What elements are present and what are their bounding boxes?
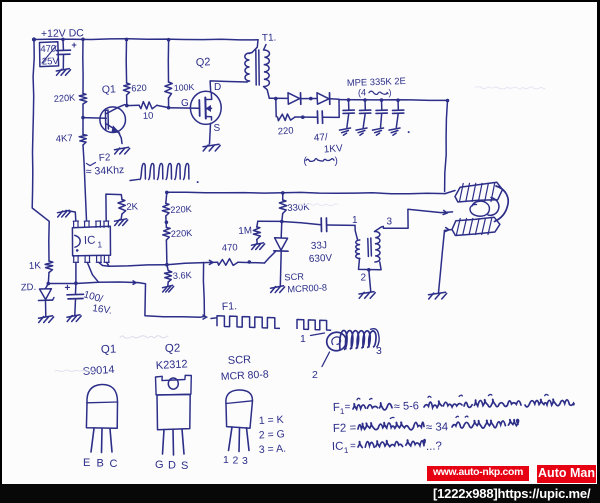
ground under 100/16V: [67, 315, 80, 317]
thyristor SCR cathode bar: [274, 250, 288, 252]
node snubber mid: [301, 115, 305, 119]
svg-text:MCR00-8: MCR00-8: [287, 282, 327, 294]
thyristor SCR triangle: [275, 238, 288, 250]
node between diodes: [309, 97, 313, 101]
capacitor 470/25V plates: [57, 49, 71, 51]
node bus left end: [165, 191, 169, 195]
capacitor 470/25V lead: [62, 39, 64, 49]
diode ZD zener: [46, 284, 49, 289]
wire low row: [48, 282, 138, 284]
ground under 2K: [115, 219, 127, 221]
svg-text:2: 2: [361, 273, 367, 284]
node rail junction C: [125, 38, 129, 42]
wire IC1 pin7 down: [87, 262, 98, 282]
wire gate drive vertical: [201, 263, 205, 318]
svg-text:T1.: T1.: [262, 33, 277, 44]
wire row to R470: [204, 261, 218, 263]
wire bus top stub: [166, 192, 167, 203]
svg-text:+: +: [65, 283, 71, 294]
wire R10 to gate node: [157, 105, 169, 107]
ground under 3.6K: [163, 285, 173, 287]
node HV bus end: [446, 99, 450, 103]
transistor Q2 drain stub: [206, 94, 212, 100]
node rail junction B: [81, 38, 85, 42]
resistor 620: [123, 83, 130, 95]
capacitor C1 MPE335K lead: [348, 100, 350, 110]
wire pin3 to toroid: [383, 209, 441, 228]
wire chain to node: [165, 240, 168, 265]
svg-text:1KV: 1KV: [323, 143, 343, 155]
svg-text:B: B: [97, 458, 104, 470]
wire to D1: [269, 97, 287, 99]
node Q1 base divider: [81, 116, 85, 120]
transistor Q2 mid stub: [206, 107, 212, 109]
wire +12V rail: [34, 39, 258, 40]
svg-text:620: 620: [131, 83, 147, 94]
svg-text:(4: (4: [358, 88, 366, 98]
svg-text:=: =: [345, 402, 351, 413]
node 220K chain mid: [165, 221, 169, 225]
wire T3 pin1 lead: [355, 225, 358, 239]
wire toroid bottom arrow: [445, 228, 449, 232]
svg-text:≈ 5-6: ≈ 5-6: [394, 400, 419, 413]
wire anode row right: [282, 222, 321, 225]
transistor Q1 circle: [100, 107, 126, 133]
wire HV bus: [339, 99, 448, 102]
IC IC1 body: [72, 226, 110, 256]
svg-text:220K: 220K: [53, 92, 76, 104]
svg-text:+: +: [72, 40, 77, 50]
svg-text:.: .: [407, 122, 410, 136]
transistor Q1 emitter arrow: [112, 126, 120, 133]
resistor 1M: [253, 227, 260, 240]
waveform F1 group2: [297, 320, 331, 331]
transistor Q2 gate bar: [198, 100, 200, 116]
transistor Q2 arrow: [206, 106, 210, 112]
capacitor 47/1KV plates: [316, 111, 318, 123]
svg-text:Q1: Q1: [102, 83, 117, 96]
capacitor C3 plates: [376, 109, 387, 111]
svg-text:1: 1: [223, 454, 229, 466]
capacitor C1 lead2: [347, 114, 349, 128]
svg-text:3.6K: 3.6K: [173, 270, 193, 281]
wire coil lead1: [311, 333, 325, 336]
wire row arrow: [209, 260, 213, 264]
wire R220K to node: [82, 104, 84, 118]
wire HV vertical join: [338, 99, 340, 117]
wire bus to toroid: [445, 191, 455, 194]
svg-text:MCR 80-8: MCR 80-8: [221, 368, 270, 382]
svg-text:33J: 33J: [311, 240, 328, 252]
wire R620 to collector node: [126, 95, 128, 106]
node zener: [47, 282, 51, 286]
transistor Q2 source stub: [206, 117, 212, 121]
svg-text:C: C: [110, 458, 118, 470]
wire faint ghost marks: [120, 336, 168, 338]
wire T1 primary bottom: [247, 81, 249, 82]
wire node to R10: [127, 104, 139, 106]
wire IC1 pin6 to row: [99, 262, 109, 266]
wire HV lower bus: [167, 192, 445, 194]
ground under C4: [389, 128, 400, 130]
wire SCR anode lead: [280, 222, 283, 238]
wire D1-D2: [301, 98, 317, 100]
IC IC1 bottom pin tab: [103, 256, 105, 262]
svg-text:G: G: [181, 98, 189, 109]
transistor Q2 channel bar: [204, 98, 207, 119]
transformer T1 core: [255, 50, 257, 85]
wire bus to R330K: [282, 193, 284, 200]
wire Q2 source: [210, 124, 211, 145]
inductor spark coil: [326, 331, 348, 352]
transformer T2 toroid bottom winding: [452, 217, 500, 235]
package SCR TO92: [226, 390, 253, 404]
node C3 tap: [380, 98, 384, 102]
IC IC1 top pin tab: [84, 221, 86, 227]
wire Q2 gate lead: [169, 107, 199, 110]
svg-text:10: 10: [143, 110, 154, 122]
wire IC1 pin1 to gnd: [66, 211, 76, 222]
svg-text:630V: 630V: [309, 253, 333, 265]
capacitor C2 lead2: [363, 114, 365, 128]
package Q1 TO92: [87, 384, 118, 403]
IC IC1 top pin tab: [103, 221, 105, 227]
node gate drive: [248, 260, 252, 264]
node C1 tap: [347, 98, 351, 102]
wire IC1 pin4 to 2K: [106, 194, 122, 221]
svg-text:470: 470: [222, 242, 238, 254]
node T3 pin2: [367, 268, 371, 272]
node rail junction D: [167, 38, 171, 42]
wire rail to R100K: [167, 40, 169, 82]
node rail junction A: [61, 38, 65, 42]
node low row arrow: [133, 281, 136, 284]
wire 3.6K gnd stub: [167, 282, 169, 286]
svg-text:≈ 34: ≈ 34: [426, 421, 449, 434]
wire C47 to HV vertical: [323, 116, 339, 118]
svg-text:...?: ...?: [426, 440, 442, 453]
svg-text:F2: F2: [98, 152, 111, 164]
svg-text:IC: IC: [332, 441, 344, 453]
ground under 1M: [252, 243, 264, 245]
wire 1M stub: [257, 221, 258, 227]
wire toroid bottom lead: [445, 230, 453, 231]
IC IC1 top pin tab: [95, 221, 97, 227]
node filter join: [74, 281, 78, 285]
wire R330K to anode node: [281, 214, 284, 222]
wire toroid mid lead: [441, 211, 453, 214]
svg-text:2: 2: [312, 369, 318, 381]
capacitor 470/25V lead2: [62, 55, 64, 69]
wire IC1 pin8 down: [75, 262, 77, 283]
package Q2 body: [157, 395, 190, 430]
wire feedback row left: [109, 265, 167, 267]
transistor Q1 emitter: [107, 124, 122, 144]
wire rail to R 220K: [82, 39, 84, 93]
capacitor 33J plates: [320, 218, 322, 232]
resistor 220 snubber: [278, 114, 296, 121]
package Q1 legs: [91, 429, 94, 453]
ground under C2: [356, 128, 367, 130]
svg-text:1: 1: [97, 239, 102, 249]
resistor 220K chain1: [162, 204, 169, 217]
wire feedback row: [167, 263, 204, 265]
svg-text:2K: 2K: [126, 201, 139, 213]
capacitor C2 MPE335K lead: [364, 100, 366, 110]
waveform F2 sawtooth: [140, 164, 189, 180]
svg-text:2: 2: [233, 455, 239, 467]
ground under Q1: [115, 147, 129, 149]
wire HV down right: [445, 101, 448, 192]
wire IC1 pin5 to row: [107, 262, 109, 266]
resistor 3.6K: [165, 271, 172, 283]
wire SCR cathode: [279, 252, 282, 287]
resistor 330K: [279, 200, 286, 214]
svg-text:3: 3: [376, 345, 382, 357]
IC IC1 bottom pin tab: [84, 256, 86, 262]
svg-text:25V: 25V: [42, 56, 60, 68]
svg-text:330K: 330K: [287, 202, 310, 214]
transformer T2 toroid top winding: [455, 182, 503, 202]
transistor Q1 collector: [107, 105, 125, 114]
node rail-left junction: [32, 37, 36, 41]
svg-text:≈ 34Khz: ≈ 34Khz: [86, 164, 125, 178]
svg-text:1 = K: 1 = K: [259, 414, 284, 427]
ground under toroid: [429, 292, 446, 294]
svg-text:1: 1: [352, 215, 358, 226]
wire T1 secondary down: [264, 87, 270, 99]
ground IC1 pin1: [58, 210, 70, 212]
svg-text:D: D: [214, 82, 221, 93]
wire rail to R620: [125, 39, 127, 83]
svg-text:Q1: Q1: [101, 343, 117, 356]
capacitor C3 lead2: [381, 114, 382, 128]
transformer T3 core: [367, 239, 370, 257]
node C2 tap: [363, 98, 367, 102]
wire R470 to gate: [238, 261, 265, 264]
svg-text:D: D: [168, 460, 176, 472]
svg-text:1M: 1M: [238, 225, 252, 237]
node bus 330K tap: [281, 191, 285, 195]
svg-text:2 = G: 2 = G: [259, 428, 286, 441]
wire R220 to C47: [295, 116, 317, 118]
transistor Q2 circle: [190, 91, 221, 124]
wire Q2 drain: [210, 81, 247, 92]
package SCR legs: [229, 427, 233, 451]
svg-text:3: 3: [387, 217, 393, 228]
capacitor 100/16V: [75, 283, 77, 294]
transformer T3 primary: [356, 240, 360, 259]
svg-text:): ): [335, 156, 338, 167]
label F2 arrow: [87, 163, 96, 166]
wire spark coil out: [370, 329, 379, 348]
ground under 470/25V: [56, 69, 69, 71]
ground under T3: [359, 292, 374, 294]
wire T3 pin3 lead: [375, 227, 384, 232]
node gate junction: [167, 106, 171, 110]
wire T3 pin2 gnd: [369, 270, 371, 292]
wire low row corner: [139, 283, 201, 318]
wire 1M gnd stub: [256, 240, 258, 244]
package Q2 legs: [163, 430, 165, 455]
svg-text:E: E: [83, 457, 90, 469]
wire left supply branch: [32, 40, 49, 262]
capacitor C4 plates: [393, 109, 404, 111]
IC IC1 bottom pin tab: [73, 256, 75, 262]
transformer T1 secondary: [264, 50, 270, 87]
node rectifier input: [274, 97, 278, 101]
node Q1 collector: [125, 104, 129, 108]
svg-text:G: G: [155, 459, 164, 471]
node C4 tap: [396, 98, 400, 102]
resistor 220K chain2: [163, 228, 171, 241]
ground under C1: [340, 128, 351, 130]
IC IC1 notch: [74, 235, 80, 247]
wire R100K to gate node: [168, 98, 170, 108]
capacitor C4 lead2: [396, 114, 398, 128]
svg-text:IC: IC: [84, 235, 96, 247]
svg-text:100K: 100K: [174, 82, 195, 93]
transformer T3 secondary: [375, 231, 380, 262]
thyristor SCR gate lead: [265, 252, 276, 264]
resistor 220K upper-left: [79, 94, 87, 105]
waveform F1 group1: [211, 317, 217, 320]
svg-text:47/: 47/: [313, 132, 328, 144]
wire chain mid: [165, 216, 168, 228]
wire toroid to ground: [439, 231, 445, 293]
wire F1 row arrow: [203, 315, 207, 319]
package Q2 tab: [156, 375, 192, 395]
wire T3 bottom: [359, 259, 382, 270]
wire 1K to node: [47, 273, 50, 284]
svg-text:ZD.: ZD.: [21, 282, 37, 294]
value box 470/25V: [40, 42, 59, 67]
svg-text:Q2: Q2: [196, 56, 211, 69]
svg-text:220K: 220K: [170, 204, 193, 215]
ground under Q2: [203, 144, 219, 146]
diode D2: [317, 93, 329, 104]
svg-text:Q2: Q2: [165, 342, 181, 355]
ground under C3: [373, 128, 384, 130]
svg-text:=: =: [350, 441, 356, 452]
wire 3.6K stub: [167, 265, 168, 271]
svg-text:MPE 335K 2E: MPE 335K 2E: [347, 75, 406, 88]
wire anode row left: [258, 220, 282, 222]
svg-text:1: 1: [300, 333, 306, 345]
wire 2K gnd stub: [121, 214, 122, 220]
capacitor C4 MPE335K lead: [397, 100, 399, 110]
capacitor C2 plates: [360, 109, 371, 111]
svg-text:F2 =: F2 =: [333, 422, 357, 435]
diode D1: [288, 93, 300, 104]
svg-text:S: S: [214, 123, 221, 134]
resistor 4K7: [79, 135, 87, 146]
svg-text:K2312: K2312: [156, 358, 188, 372]
wire T1 secondary top tail: [264, 45, 267, 51]
resistor 100K: [165, 82, 172, 98]
node feedback: [165, 263, 169, 267]
capacitor C3 MPE335K lead: [381, 100, 383, 110]
wire toroid mid arrow: [443, 210, 447, 214]
resistor 2K: [118, 200, 126, 215]
wire coil lead2: [322, 352, 330, 367]
transformer T2 core loop: [495, 186, 509, 222]
wire node to 4K7: [82, 118, 84, 135]
svg-text:.: .: [196, 172, 199, 186]
ground under SCR: [271, 286, 284, 288]
wire Q1 base: [83, 117, 106, 120]
wire 33J to pin1: [327, 224, 355, 226]
transistor Q1 base bar: [104, 111, 106, 130]
wire 4K7 to IC1 pin2: [83, 145, 87, 221]
svg-text:4K7: 4K7: [55, 133, 73, 145]
capacitor C1 plates: [343, 109, 354, 111]
transformer T1 primary: [245, 53, 250, 81]
svg-text:F1.: F1.: [222, 300, 238, 313]
node SCR anode: [280, 220, 284, 224]
wire node down to R220: [275, 99, 277, 117]
svg-text:): ): [389, 88, 392, 98]
IC IC1 pin1 dot: [76, 249, 79, 252]
wire rail drop to T1: [252, 40, 258, 53]
resistor 1K: [45, 261, 53, 273]
svg-text:S: S: [181, 460, 188, 472]
svg-text:(: (: [304, 156, 308, 167]
svg-text:470: 470: [40, 43, 56, 55]
svg-text:SCR: SCR: [228, 354, 252, 367]
resistor 470 gate: [218, 259, 239, 266]
svg-text:3: 3: [242, 455, 248, 467]
svg-text:SCR: SCR: [284, 271, 304, 282]
ground under ZD: [39, 316, 53, 318]
svg-text:220K: 220K: [171, 228, 194, 239]
svg-text:1: 1: [344, 446, 349, 455]
svg-text:16V.: 16V.: [92, 303, 113, 317]
svg-text:1K: 1K: [29, 260, 42, 272]
label snubber thai note: [306, 159, 334, 162]
resistor 10: [139, 102, 157, 109]
IC IC1 top pin tab: [73, 221, 75, 227]
svg-text:3 = A.: 3 = A.: [259, 443, 287, 456]
IC IC1 bottom pin tab: [96, 256, 98, 262]
svg-text:220: 220: [277, 125, 294, 137]
wire D2 to HV node: [330, 98, 339, 101]
